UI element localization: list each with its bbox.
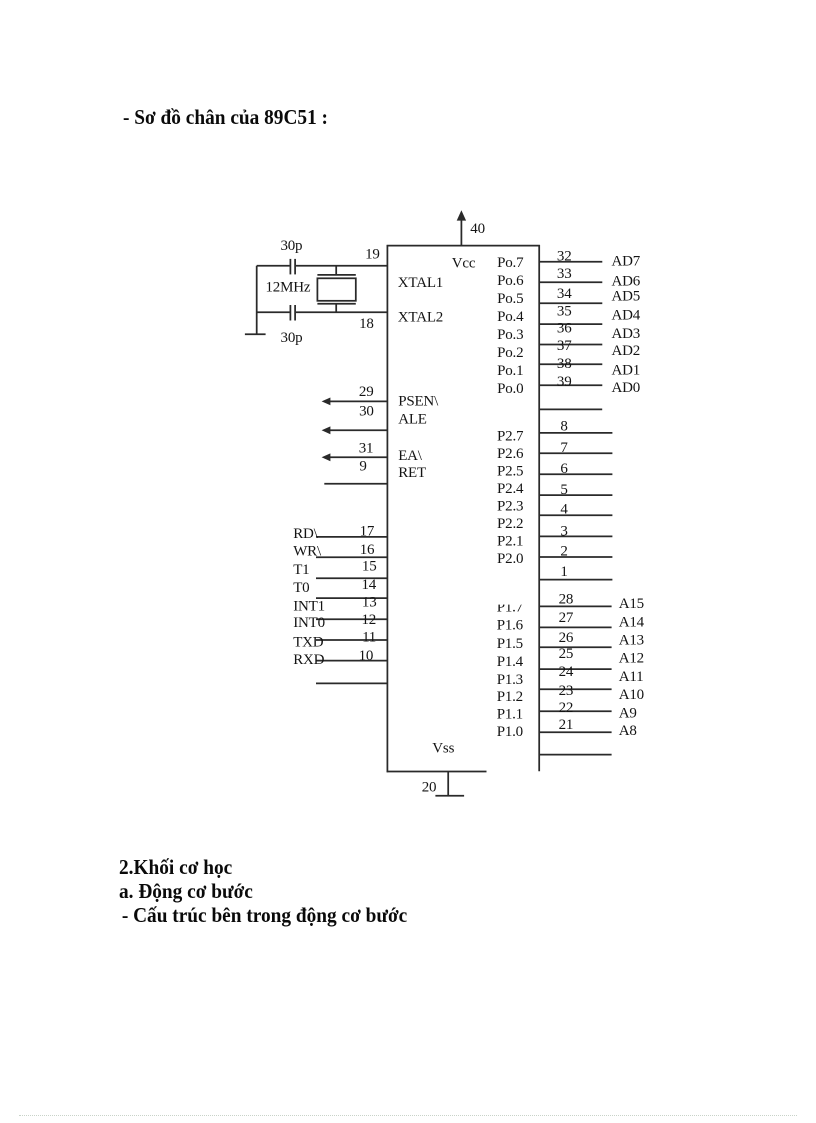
svg-text:23: 23	[559, 683, 574, 699]
svg-text:29: 29	[359, 384, 374, 400]
wire left vertical joining C1 C2 to ground	[256, 266, 258, 335]
svg-text:RXD: RXD	[293, 652, 324, 668]
svg-text:3: 3	[560, 524, 567, 540]
svg-text:A8: A8	[619, 723, 637, 739]
svg-text:21: 21	[559, 717, 574, 733]
svg-text:AD4: AD4	[612, 308, 641, 324]
wire WR pin 16	[316, 556, 387, 558]
wire P2 port pin 8	[539, 432, 612, 434]
svg-text:TXD: TXD	[293, 635, 324, 651]
svg-text:24: 24	[559, 664, 574, 680]
ground	[245, 333, 266, 335]
svg-text:5: 5	[560, 482, 567, 498]
wire T1 pin 15	[316, 577, 387, 579]
svg-text:A11: A11	[619, 669, 644, 685]
svg-text:12MHz: 12MHz	[266, 279, 311, 295]
svg-text:P2.3: P2.3	[497, 499, 523, 515]
svg-text:P2.0: P2.0	[497, 551, 523, 567]
arrow head EA pin 31	[322, 453, 331, 461]
heading 2.Khoi co hoc	[119, 855, 232, 880]
svg-text:30p: 30p	[280, 238, 302, 254]
heading a. Dong co buoc	[119, 879, 253, 904]
svg-text:8: 8	[560, 419, 567, 435]
wire P0 port pin 36	[539, 344, 602, 346]
arrow head PSEN pin 29	[322, 398, 331, 406]
wire pin 18 to XTAL2 (left segment)	[257, 311, 290, 313]
svg-text:1: 1	[560, 564, 567, 580]
svg-text:26: 26	[559, 630, 574, 646]
op-amp/IC U1 89C51 box left edge	[386, 245, 388, 772]
wire P2 port pin 3	[539, 535, 612, 537]
svg-text:INT1: INT1	[293, 598, 325, 614]
svg-text:XTAL1: XTAL1	[398, 275, 443, 291]
svg-text:Po.4: Po.4	[497, 309, 524, 325]
svg-text:34: 34	[557, 286, 572, 302]
svg-text:P2.1: P2.1	[497, 534, 523, 550]
svg-text:35: 35	[557, 304, 572, 320]
svg-text:T1: T1	[293, 562, 309, 578]
svg-text:Po.3: Po.3	[497, 327, 523, 343]
wire P1 port pin 27	[539, 626, 611, 628]
Vcc arrow head	[457, 210, 466, 220]
svg-text:2: 2	[560, 544, 567, 560]
svg-text:39: 39	[557, 374, 572, 390]
svg-text:P1.6: P1.6	[497, 618, 524, 634]
wire PSEN pin 29 with left arrow	[329, 400, 387, 402]
svg-text:WR\: WR\	[293, 544, 322, 560]
svg-text:A12: A12	[619, 651, 644, 667]
wire P0 port pin 32	[539, 261, 602, 263]
IC U1 box right edge (pin column)	[538, 245, 540, 771]
arrow head ALE pin 30	[322, 426, 331, 434]
svg-text:28: 28	[559, 592, 574, 608]
capacitor C2 30p plates	[289, 305, 291, 321]
svg-text:17: 17	[360, 523, 375, 539]
wire P1 port pin 21 (A8)	[539, 754, 611, 756]
wire INT0 pin 12	[316, 639, 387, 641]
svg-text:AD0: AD0	[612, 380, 641, 396]
wire T0 pin 14	[316, 597, 387, 599]
svg-text:9: 9	[359, 459, 366, 475]
svg-text:P1.1: P1.1	[497, 707, 523, 723]
heading Cau truc ben trong dong co buoc	[117, 903, 407, 928]
wire P0 port pin 39 (AD0)	[539, 408, 602, 410]
wire P1 port pin 23	[539, 710, 611, 712]
svg-text:Po.2: Po.2	[497, 345, 523, 361]
clipping artifact over P1.7 top	[494, 596, 526, 604]
svg-text:33: 33	[557, 266, 572, 282]
svg-text:T0: T0	[293, 580, 309, 596]
wire pin 18 to XTAL2 (right segment)	[296, 311, 387, 313]
svg-text:38: 38	[557, 356, 572, 372]
wire P2 port pin 1	[539, 579, 612, 581]
svg-text:31: 31	[359, 440, 374, 456]
svg-text:P1.0: P1.0	[497, 724, 523, 740]
svg-text:32: 32	[557, 248, 572, 264]
wire P0 port pin 38	[539, 384, 602, 386]
svg-text:AD3: AD3	[612, 326, 641, 342]
crystal Y1 body rectangle	[317, 278, 355, 301]
svg-text:7: 7	[560, 440, 568, 456]
wire TXD pin 11	[316, 660, 387, 662]
svg-text:30p: 30p	[281, 330, 303, 346]
svg-text:A9: A9	[619, 706, 637, 722]
svg-text:6: 6	[560, 461, 568, 477]
svg-text:Vcc: Vcc	[452, 255, 476, 271]
crystal Y1 bottom plate	[317, 303, 355, 305]
svg-text:37: 37	[557, 338, 572, 354]
svg-text:13: 13	[362, 595, 377, 611]
wire RET pin 9	[324, 483, 387, 485]
svg-text:Po.5: Po.5	[497, 291, 523, 307]
wire P2 port pin 4	[539, 514, 612, 516]
svg-text:11: 11	[362, 630, 376, 646]
svg-text:P2.7: P2.7	[497, 428, 524, 444]
svg-text:XTAL2: XTAL2	[398, 310, 443, 326]
wire crystal top stub	[335, 266, 337, 275]
svg-text:18: 18	[359, 316, 374, 332]
svg-text:14: 14	[361, 577, 376, 593]
svg-text:Po.0: Po.0	[497, 381, 523, 397]
wire P1 port pin 28	[539, 605, 611, 607]
svg-text:22: 22	[559, 700, 574, 716]
svg-text:20: 20	[422, 780, 437, 796]
svg-text:Po.6: Po.6	[497, 273, 524, 289]
wire P0 port pin 33	[539, 281, 602, 283]
svg-text:A14: A14	[619, 614, 645, 630]
wire P0 port pin 34	[539, 302, 602, 304]
svg-text:RD\: RD\	[293, 526, 318, 542]
svg-text:AD7: AD7	[612, 254, 641, 270]
wire RXD pin 10	[316, 682, 387, 684]
svg-text:EA\: EA\	[398, 448, 423, 464]
svg-text:40: 40	[470, 221, 485, 237]
svg-text:Po.7: Po.7	[497, 255, 524, 271]
svg-text:Vss: Vss	[432, 740, 454, 756]
wire P2 port pin 2	[539, 556, 612, 558]
svg-text:AD5: AD5	[612, 289, 641, 305]
wire pin 40 Vcc vertical	[460, 219, 462, 246]
svg-text:A15: A15	[619, 596, 644, 612]
IC U1 box bottom edge	[387, 771, 487, 773]
title: So do chan cua 89C51	[123, 105, 328, 130]
svg-text:16: 16	[360, 542, 375, 558]
svg-text:27: 27	[559, 610, 574, 626]
wire EA pin 31 with left arrow	[329, 456, 387, 458]
svg-text:P1.5: P1.5	[497, 636, 523, 652]
wire P0 port pin 35	[539, 323, 602, 325]
wire P2 port pin 7	[539, 452, 612, 454]
wire RD pin 17	[316, 536, 387, 538]
svg-text:12: 12	[361, 612, 376, 628]
wire crystal bottom stub	[335, 304, 337, 312]
svg-text:INT0: INT0	[293, 615, 325, 631]
svg-text:4: 4	[560, 502, 568, 518]
crystal Y1 top plate	[317, 274, 355, 276]
wire pin 19 to XTAL1 (right segment)	[296, 265, 387, 267]
svg-text:36: 36	[557, 320, 572, 336]
wire P2 port pin 6	[539, 473, 612, 475]
svg-text:P1.4: P1.4	[497, 654, 524, 670]
capacitor C1 30p plates	[289, 259, 291, 275]
svg-text:25: 25	[559, 646, 574, 662]
svg-text:P2.4: P2.4	[497, 481, 524, 497]
faint dotted separator	[19, 1115, 797, 1116]
svg-text:19: 19	[365, 246, 380, 262]
wire pin 19 to XTAL1 (left segment)	[257, 265, 290, 267]
svg-text:P2.6: P2.6	[497, 446, 524, 462]
wire pin 20 Vss vertical	[447, 772, 449, 796]
svg-text:PSEN\: PSEN\	[398, 393, 439, 409]
svg-text:A10: A10	[619, 687, 644, 703]
svg-text:P2.5: P2.5	[497, 464, 523, 480]
svg-text:P1.3: P1.3	[497, 672, 523, 688]
IC U1 box top edge	[387, 245, 540, 247]
wire INT1 pin 13	[316, 618, 387, 620]
ground bar pin 20	[435, 795, 464, 797]
svg-text:P1.2: P1.2	[497, 689, 523, 705]
svg-text:AD6: AD6	[612, 273, 641, 289]
svg-text:P2.2: P2.2	[497, 516, 523, 532]
wire P1 port pin 25	[539, 668, 611, 670]
svg-text:ALE: ALE	[398, 411, 427, 427]
wire P1 port pin 24	[539, 688, 611, 690]
svg-text:A13: A13	[619, 633, 644, 649]
svg-text:30: 30	[359, 403, 374, 419]
svg-text:10: 10	[359, 648, 374, 664]
svg-text:RET: RET	[398, 465, 426, 481]
svg-text:AD1: AD1	[612, 362, 641, 378]
wire P1 port pin 22	[539, 731, 611, 733]
svg-text:15: 15	[362, 558, 377, 574]
wire P0 port pin 37	[539, 363, 602, 365]
svg-text:AD2: AD2	[612, 343, 641, 359]
wire P2 port pin 5	[539, 494, 612, 496]
wire ALE pin 30 with left arrow	[329, 429, 387, 431]
svg-text:Po.1: Po.1	[497, 363, 523, 379]
wire P1 port pin 26	[539, 646, 611, 648]
